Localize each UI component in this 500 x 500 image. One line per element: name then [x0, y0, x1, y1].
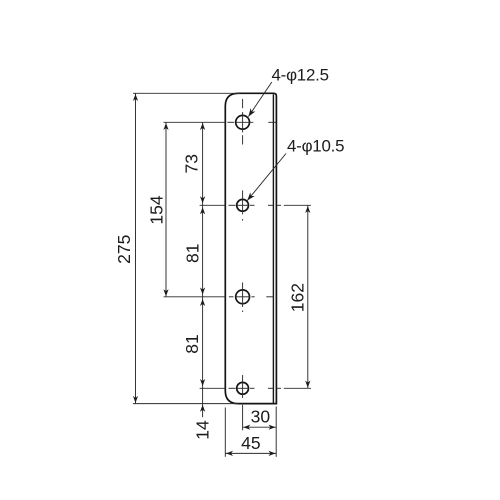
dimension line 45	[225, 452, 276, 454]
svg-text:154: 154	[146, 195, 166, 224]
hole 2 centerlines	[229, 190, 274, 220]
dimension line 81 upper	[202, 205, 204, 296]
extension line hole 4 left	[200, 387, 226, 389]
extension line hole 1 left	[164, 121, 226, 123]
extension line bottom center vertical	[242, 405, 244, 431]
dimension line 30	[243, 426, 277, 428]
extension line hole 3 left	[164, 296, 226, 298]
svg-text:275: 275	[114, 235, 134, 264]
extension line top edge	[133, 92, 240, 94]
dimension line 81 lower	[202, 297, 204, 389]
hole 3 (phi 12.5)	[236, 290, 250, 304]
svg-text:45: 45	[241, 433, 260, 453]
svg-text:30: 30	[251, 407, 271, 427]
extension line bottom right vertical	[275, 407, 277, 457]
hole 1 centerlines	[227, 99, 275, 145]
hole 1 (phi 12.5)	[236, 115, 250, 129]
svg-text:73: 73	[182, 154, 202, 173]
dimension line 162	[307, 205, 309, 388]
svg-text:81: 81	[182, 334, 202, 353]
svg-text:162: 162	[287, 283, 307, 312]
extension line hole 4 right	[277, 387, 311, 389]
svg-text:14: 14	[193, 420, 213, 440]
extension line hole 2 right	[277, 204, 311, 206]
extension line bottom edge	[133, 403, 238, 405]
hole 3 centerlines	[229, 283, 274, 313]
dimension line 14	[202, 388, 204, 403]
plate outline	[225, 93, 276, 403]
hole 4 (phi 10.5)	[237, 382, 249, 394]
dimension line 154	[165, 122, 167, 296]
hole 4 centerlines	[229, 375, 274, 398]
extension line hole 2 left	[200, 204, 226, 206]
dimension line 275	[135, 93, 137, 403]
hole 2 (phi 10.5)	[237, 199, 249, 211]
svg-text:4-φ12.5: 4-φ12.5	[272, 65, 329, 84]
dimension line 73	[202, 122, 204, 205]
plate inner edge line	[272, 94, 274, 403]
svg-text:4-φ10.5: 4-φ10.5	[287, 137, 344, 156]
extension line bottom left vertical	[224, 408, 226, 457]
svg-text:81: 81	[182, 244, 202, 263]
leader line hole 2 label	[247, 154, 286, 201]
leader line hole 1 label	[248, 82, 271, 117]
